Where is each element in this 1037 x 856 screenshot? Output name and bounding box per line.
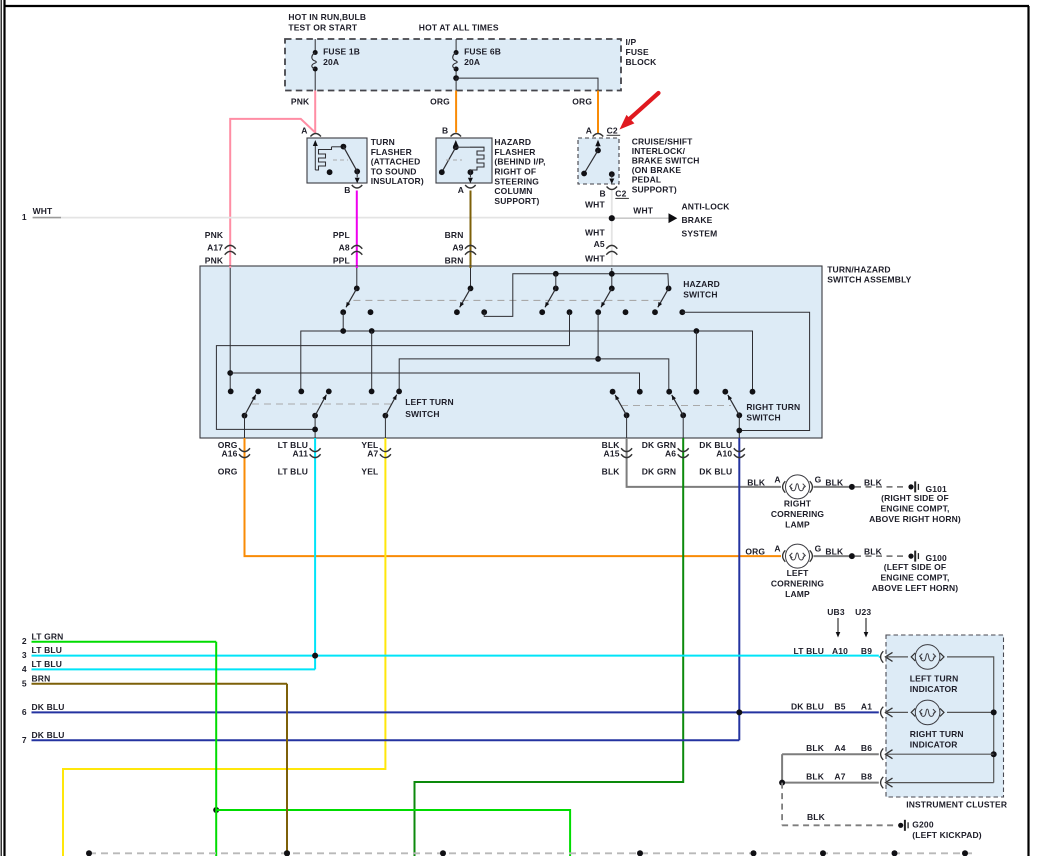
svg-text:5: 5 <box>22 678 27 688</box>
svg-text:A5: A5 <box>594 239 605 249</box>
svg-text:BLK: BLK <box>806 743 825 753</box>
svg-text:CRUISE/SHIFT: CRUISE/SHIFT <box>632 136 693 146</box>
svg-text:4: 4 <box>22 664 27 674</box>
svg-text:B5: B5 <box>834 701 845 711</box>
svg-text:HAZARD: HAZARD <box>494 137 531 147</box>
svg-text:A10: A10 <box>832 646 848 656</box>
svg-text:A8: A8 <box>339 242 350 252</box>
svg-text:U23: U23 <box>855 607 871 617</box>
svg-text:B8: B8 <box>861 772 872 782</box>
svg-text:B6: B6 <box>861 743 872 753</box>
svg-text:BRN: BRN <box>445 255 464 265</box>
svg-text:PNK: PNK <box>291 97 310 107</box>
svg-text:CORNERING: CORNERING <box>771 509 825 519</box>
svg-text:INDICATOR: INDICATOR <box>910 684 958 694</box>
svg-text:BLK: BLK <box>864 547 883 557</box>
svg-text:ENGINE COMPT,: ENGINE COMPT, <box>880 504 949 514</box>
svg-text:A7: A7 <box>834 772 845 782</box>
svg-text:DK BLU: DK BLU <box>32 702 65 712</box>
svg-text:3: 3 <box>22 650 27 660</box>
svg-text:BLK: BLK <box>806 772 825 782</box>
svg-text:G: G <box>815 475 822 485</box>
svg-text:WHT: WHT <box>585 200 605 210</box>
svg-text:SWITCH: SWITCH <box>683 290 717 300</box>
svg-text:A: A <box>774 544 780 554</box>
svg-text:WHT: WHT <box>585 253 605 263</box>
svg-text:A6: A6 <box>665 449 676 459</box>
svg-text:LAMP: LAMP <box>785 520 810 530</box>
svg-text:6: 6 <box>22 707 27 717</box>
svg-text:INSTRUMENT CLUSTER: INSTRUMENT CLUSTER <box>906 800 1007 810</box>
svg-text:(LEFT KICKPAD): (LEFT KICKPAD) <box>912 830 981 840</box>
svg-text:LEFT: LEFT <box>787 568 810 578</box>
svg-text:DK BLU: DK BLU <box>32 730 65 740</box>
svg-text:SWITCH: SWITCH <box>405 409 439 419</box>
svg-text:ORG: ORG <box>218 467 238 477</box>
svg-text:FLASHER: FLASHER <box>371 147 412 157</box>
svg-text:RIGHT TURN: RIGHT TURN <box>910 729 964 739</box>
svg-text:ORG: ORG <box>572 97 592 107</box>
svg-text:G200: G200 <box>912 819 934 829</box>
svg-text:RIGHT: RIGHT <box>784 499 812 509</box>
svg-text:CORNERING: CORNERING <box>771 578 825 588</box>
svg-text:UB3: UB3 <box>827 607 845 617</box>
svg-text:C2: C2 <box>607 125 618 135</box>
svg-text:ORG: ORG <box>745 547 765 557</box>
svg-text:BLK: BLK <box>825 547 844 557</box>
svg-text:A7: A7 <box>367 449 378 459</box>
svg-text:A: A <box>586 125 592 135</box>
svg-text:LT BLU: LT BLU <box>278 467 308 477</box>
svg-text:A1: A1 <box>861 701 872 711</box>
svg-text:TURN/HAZARD: TURN/HAZARD <box>827 265 891 275</box>
svg-text:DK BLU: DK BLU <box>699 467 732 477</box>
svg-text:WHT: WHT <box>33 206 53 216</box>
svg-text:YEL: YEL <box>361 467 378 477</box>
svg-text:A15: A15 <box>604 449 620 459</box>
svg-text:COLUMN: COLUMN <box>494 186 532 196</box>
svg-text:B: B <box>344 185 350 195</box>
svg-text:FUSE: FUSE <box>626 47 649 57</box>
svg-text:(ON BRAKE: (ON BRAKE <box>632 165 682 175</box>
svg-text:INDICATOR: INDICATOR <box>910 739 958 749</box>
svg-text:(RIGHT SIDE OF: (RIGHT SIDE OF <box>881 493 949 503</box>
svg-text:A17: A17 <box>207 242 223 252</box>
svg-text:PPL: PPL <box>333 255 350 265</box>
svg-text:LT GRN: LT GRN <box>32 631 64 641</box>
svg-text:RIGHT TURN: RIGHT TURN <box>746 402 800 412</box>
svg-text:LEFT TURN: LEFT TURN <box>405 397 454 407</box>
svg-text:LT BLU: LT BLU <box>794 646 824 656</box>
svg-text:(LEFT SIDE OF: (LEFT SIDE OF <box>884 562 946 572</box>
svg-text:PPL: PPL <box>333 230 350 240</box>
svg-text:LT BLU: LT BLU <box>32 645 62 655</box>
svg-text:BLK: BLK <box>864 477 883 487</box>
svg-text:G: G <box>815 544 822 554</box>
svg-text:LT BLU: LT BLU <box>32 659 62 669</box>
svg-text:A16: A16 <box>221 449 237 459</box>
svg-text:A4: A4 <box>834 743 845 753</box>
svg-text:ORG: ORG <box>430 97 450 107</box>
svg-text:2: 2 <box>22 636 27 646</box>
svg-text:BLK: BLK <box>747 477 766 487</box>
svg-text:PEDAL: PEDAL <box>632 175 662 185</box>
svg-text:BLK: BLK <box>825 477 844 487</box>
svg-text:A11: A11 <box>293 449 309 459</box>
svg-text:7: 7 <box>22 735 27 745</box>
svg-text:LEFT TURN: LEFT TURN <box>910 673 959 683</box>
svg-text:A10: A10 <box>716 449 732 459</box>
svg-text:B9: B9 <box>861 646 872 656</box>
svg-text:ENGINE COMPT,: ENGINE COMPT, <box>880 573 949 583</box>
svg-text:A9: A9 <box>452 242 463 252</box>
svg-text:B: B <box>600 188 606 198</box>
svg-text:BRN: BRN <box>32 673 51 683</box>
svg-text:LAMP: LAMP <box>785 589 810 599</box>
svg-text:1: 1 <box>22 212 27 222</box>
svg-text:ANTI-LOCK: ANTI-LOCK <box>682 201 731 211</box>
svg-text:HOT IN RUN,BULB: HOT IN RUN,BULB <box>288 12 366 22</box>
svg-text:SWITCH: SWITCH <box>746 412 780 422</box>
svg-text:SUPPORT): SUPPORT) <box>632 184 677 194</box>
svg-text:WHT: WHT <box>585 228 605 238</box>
svg-text:BRAKE SWITCH: BRAKE SWITCH <box>632 156 700 166</box>
svg-text:A: A <box>301 125 307 135</box>
svg-text:SWITCH ASSEMBLY: SWITCH ASSEMBLY <box>827 274 911 284</box>
svg-text:BRN: BRN <box>445 230 464 240</box>
svg-text:TURN: TURN <box>371 137 395 147</box>
svg-text:PNK: PNK <box>205 255 224 265</box>
svg-text:I/P: I/P <box>626 37 637 47</box>
svg-text:RIGHT OF: RIGHT OF <box>494 167 536 177</box>
svg-text:BRAKE: BRAKE <box>682 215 713 225</box>
svg-text:SUPPORT): SUPPORT) <box>494 196 539 206</box>
svg-text:FLASHER: FLASHER <box>494 147 535 157</box>
svg-text:DK BLU: DK BLU <box>791 701 824 711</box>
svg-text:TEST OR START: TEST OR START <box>288 23 358 33</box>
svg-text:SYSTEM: SYSTEM <box>682 228 718 238</box>
svg-text:(ATTACHED: (ATTACHED <box>371 157 421 167</box>
svg-text:ABOVE LEFT HORN): ABOVE LEFT HORN) <box>872 583 958 593</box>
svg-text:STEERING: STEERING <box>494 176 539 186</box>
svg-text:(BEHIND I/P,: (BEHIND I/P, <box>494 157 545 167</box>
svg-text:A: A <box>774 475 780 485</box>
svg-text:INSULATOR): INSULATOR) <box>371 176 424 186</box>
svg-text:TO SOUND: TO SOUND <box>371 166 417 176</box>
svg-text:HOT AT ALL TIMES: HOT AT ALL TIMES <box>419 23 499 33</box>
svg-text:A: A <box>458 185 464 195</box>
svg-text:INTERLOCK/: INTERLOCK/ <box>632 146 686 156</box>
svg-text:ABOVE RIGHT HORN): ABOVE RIGHT HORN) <box>869 514 961 524</box>
svg-text:20A: 20A <box>323 57 339 67</box>
svg-text:HAZARD: HAZARD <box>683 279 720 289</box>
svg-text:FUSE 6B: FUSE 6B <box>464 47 501 57</box>
svg-text:20A: 20A <box>464 57 480 67</box>
svg-text:B: B <box>442 125 448 135</box>
svg-text:BLK: BLK <box>807 812 826 822</box>
svg-text:WHT: WHT <box>633 205 653 215</box>
svg-text:PNK: PNK <box>205 230 224 240</box>
svg-text:BLOCK: BLOCK <box>626 57 658 67</box>
svg-text:BLK: BLK <box>602 467 621 477</box>
svg-text:FUSE 1B: FUSE 1B <box>323 47 360 57</box>
svg-text:C2: C2 <box>615 188 626 198</box>
svg-text:DK GRN: DK GRN <box>642 467 676 477</box>
